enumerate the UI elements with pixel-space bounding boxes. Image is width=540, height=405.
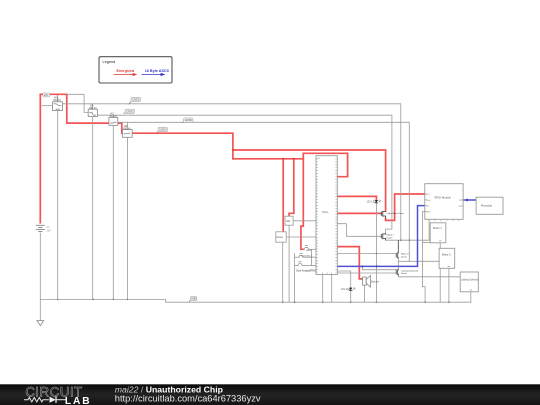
wire red pico to mosfet1 gate <box>337 212 381 214</box>
flag label F2 <box>124 109 135 113</box>
pico pin ticks <box>316 159 337 275</box>
node red junction at bus <box>232 149 234 151</box>
wire relay1 output long <box>63 104 401 240</box>
wire blue arrow to rfid <box>464 199 468 202</box>
wire reset output <box>286 236 316 238</box>
wire relay4 top stub <box>127 122 129 129</box>
battery V1 <box>36 225 51 232</box>
flag label GND rail <box>189 297 197 303</box>
logo diode <box>50 397 56 403</box>
svg-text:RFID Module: RFID Module <box>435 195 452 199</box>
wire relay3 bottom drop <box>112 125 114 299</box>
svg-text:Legend: Legend <box>103 60 116 64</box>
svg-text:Microchip: Microchip <box>481 204 493 208</box>
flag label 12V top <box>43 93 50 97</box>
wire mic bottom <box>288 225 290 302</box>
wire relay1 gate stub <box>42 105 53 107</box>
wire red bus y150 <box>233 150 386 211</box>
wire rfid gnd drop <box>422 212 425 303</box>
wire reset bottom <box>282 242 284 302</box>
wire buzzer bottom <box>363 285 365 302</box>
node rail junctions <box>57 239 450 303</box>
pushbutton S2 <box>297 254 313 258</box>
RFID module U2 <box>425 184 463 220</box>
svg-text:12VDC: 12VDC <box>185 119 193 122</box>
wire relay3 top stub <box>112 115 114 117</box>
svg-text:12V LED: 12V LED <box>366 201 376 204</box>
wire mosfet4 drain feed from blue stub <box>362 266 396 269</box>
svg-text:http://circuitlab.com/ca64r673: http://circuitlab.com/ca64r67336yzv <box>115 393 261 403</box>
wire keypad to pico rows <box>312 248 317 250</box>
led D2 <box>341 287 356 291</box>
relay K3 <box>109 112 118 126</box>
svg-text:GND: GND <box>191 298 197 301</box>
relay K2 <box>88 103 97 116</box>
wire red pico top loop <box>303 153 347 176</box>
wire relay1 bottom drop <box>57 111 59 300</box>
svg-text:Locking Solenoid: Locking Solenoid <box>401 270 418 272</box>
logo resistor zigzag <box>24 398 49 402</box>
wire led2 feed <box>337 271 350 288</box>
node red junction mic drop <box>293 158 295 160</box>
node red junction reset drop <box>282 158 284 160</box>
microchip U3 <box>476 197 503 214</box>
wire red main left vertical <box>39 94 41 223</box>
wire motor1 line <box>386 239 431 241</box>
wire red pico to led1 <box>337 196 376 200</box>
wire rfid gnd branch to motor1 <box>422 242 430 244</box>
svg-text:12VDC: 12VDC <box>126 110 134 113</box>
svg-text:Mic: Mic <box>286 219 291 223</box>
wire red mosfet1 source to rfid <box>386 194 425 220</box>
wire red top rail <box>40 94 233 159</box>
transistor M3 motor2 driver <box>396 240 409 258</box>
svg-text:RELAY: RELAY <box>110 115 118 118</box>
legend box <box>99 57 172 83</box>
transistor M4 solenoid driver <box>396 269 418 275</box>
svg-text:Buzzer: Buzzer <box>371 281 379 284</box>
legend 16 byte ascii arrow <box>142 69 169 76</box>
wire blue pico to rfid <box>337 206 425 267</box>
transistor M2 motor1 driver <box>381 233 394 240</box>
pushbutton S3 <box>296 249 316 272</box>
wire pico bottom pin drop 2 <box>331 275 333 303</box>
wire ground drop left <box>39 299 41 320</box>
wire pico to mosfet3 gate <box>337 253 396 255</box>
rfid side pin stubs <box>425 194 463 212</box>
flag label F1 <box>129 97 141 104</box>
svg-text:16 Byte ASCII: 16 Byte ASCII <box>145 69 169 73</box>
svg-text:12V: 12V <box>47 230 52 233</box>
wire red pico to buzzer <box>337 247 362 279</box>
svg-text:Motor 2: Motor 2 <box>401 253 409 256</box>
svg-text:12VDC: 12VDC <box>132 99 140 102</box>
wire relay3 output long <box>118 122 410 261</box>
wire relay4 bottom drop <box>127 137 129 299</box>
wire rfid bottom pin drop <box>428 219 430 240</box>
wire motor1 bottom drop <box>439 243 441 302</box>
svg-text:Motor 2: Motor 2 <box>442 252 451 256</box>
wire led1 bottom <box>375 203 377 302</box>
wire relay2 bottom drop <box>92 117 94 300</box>
svg-text:RELAY: RELAY <box>89 107 97 110</box>
svg-text:12V LED: 12V LED <box>341 288 351 291</box>
wire blue rfid to microchip <box>463 199 476 201</box>
wire keypad left stubs <box>295 256 298 258</box>
reset SW1 <box>276 232 286 242</box>
wire mosfet4 drain stub <box>397 261 399 269</box>
svg-text:LAB: LAB <box>65 396 92 405</box>
ground <box>37 321 44 326</box>
svg-text:Lights/Horn Driver: Lights/Horn Driver <box>387 212 405 215</box>
legend energized arrow <box>114 69 138 76</box>
wire mosfet3 source to motor2 <box>398 258 439 261</box>
svg-text:RELAY: RELAY <box>123 127 131 130</box>
wire red to keypad <box>301 153 303 249</box>
wire relay2 gate jog <box>67 94 88 112</box>
wire red bus y158 <box>233 158 303 160</box>
wire solenoid bottom drop <box>470 292 472 302</box>
wire led2 bottom <box>350 291 352 303</box>
wire mosfet4 source to solenoid <box>398 276 460 277</box>
svg-text:12VDC: 12VDC <box>159 129 167 132</box>
wire ground rail <box>40 299 471 302</box>
solenoid L1 <box>460 272 479 292</box>
wire keypad left rail <box>294 254 296 303</box>
wire keypad row2 <box>312 256 317 258</box>
svg-text:Pico: Pico <box>323 210 329 214</box>
wire relay2 top stub <box>92 104 94 109</box>
flag label F3 <box>182 118 194 122</box>
wire pico bottom pin drop 1 <box>322 275 324 303</box>
wire pico to mosfet2 gate <box>337 224 381 237</box>
IC U1 Pico microcontroller <box>316 156 337 275</box>
wire battery bottom <box>39 233 41 299</box>
relay K1 <box>53 95 63 111</box>
svg-text:12V: 12V <box>44 94 49 97</box>
rfid bottom pins <box>429 219 459 221</box>
buzzer SP1 <box>363 275 380 287</box>
wire pico to mosfet4 gate <box>337 272 396 274</box>
svg-text:Motor 1: Motor 1 <box>387 234 395 237</box>
svg-text:Locking Solenoid: Locking Solenoid <box>461 279 479 281</box>
motor MOT2 <box>439 248 455 268</box>
svg-text:Energized: Energized <box>117 69 135 73</box>
wire red to mic <box>289 159 294 216</box>
svg-text:Driver: Driver <box>401 255 407 258</box>
svg-text:Door Keypad/RFID: Door Keypad/RFID <box>296 269 316 272</box>
svg-text:Reset: Reset <box>277 236 284 239</box>
svg-text:A-Dn: A-Dn <box>306 249 312 252</box>
wire mic output <box>293 220 316 222</box>
motor MOT1 <box>430 223 446 243</box>
svg-text:Driver: Driver <box>387 236 393 239</box>
wire keypad row3 <box>312 265 317 267</box>
svg-text:RELAY: RELAY <box>54 99 62 102</box>
wire motor2 bottom drop <box>448 268 450 302</box>
svg-text:Driver: Driver <box>401 272 407 275</box>
mic MK1 <box>285 216 293 225</box>
pushbutton S1 <box>303 246 312 253</box>
relay K4 <box>123 124 133 138</box>
led D1 <box>366 200 381 204</box>
transistor M1 lights driver <box>381 211 404 219</box>
flag label F4 <box>156 127 167 133</box>
node blue junction 2 <box>361 265 363 267</box>
svg-text:Motor 1: Motor 1 <box>433 226 442 230</box>
node blue junction <box>376 265 378 267</box>
wire relay2 output long <box>97 115 392 233</box>
wire red to reset <box>282 159 284 232</box>
